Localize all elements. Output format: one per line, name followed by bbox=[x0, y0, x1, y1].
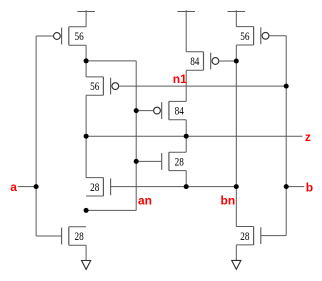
wire P3 source to P5 drain (net n1) bbox=[185, 70, 187, 101]
svg-text:an: an bbox=[138, 193, 152, 207]
wire gate P5 from net an bbox=[136, 110, 153, 112]
svg-text:56: 56 bbox=[90, 79, 99, 93]
nmos N2 w=28 (left middle, gate bn) bbox=[86, 178, 111, 196]
nmos N3 w=28 (bottom left, a-inverter pulldown) bbox=[62, 227, 87, 245]
wire N3 source to ground bbox=[85, 245, 87, 260]
wire net a vertical column bbox=[35, 36, 37, 236]
wire gate N4 from net b bbox=[261, 235, 286, 237]
wire gate P2 to net b bbox=[269, 35, 286, 37]
svg-text:56: 56 bbox=[240, 29, 249, 43]
wire P1 source to P4 drain (net an) bbox=[85, 45, 87, 77]
wire gate N3 from net a bbox=[36, 235, 62, 237]
svg-text:28: 28 bbox=[175, 155, 184, 169]
junction net z at middle column bbox=[184, 134, 189, 139]
pmos P5 w=84 (gate an) bbox=[154, 101, 187, 119]
svg-text:28: 28 bbox=[240, 229, 249, 243]
svg-text:28: 28 bbox=[90, 180, 99, 194]
wire net an vertical column bbox=[135, 61, 137, 211]
junction net an bottom bbox=[84, 208, 89, 213]
pmos P3 w=84 (top middle, gate bn) bbox=[186, 52, 219, 70]
svg-text:n1: n1 bbox=[173, 72, 187, 86]
svg-text:a: a bbox=[10, 180, 17, 194]
junction net an at gate P5 bbox=[134, 108, 139, 113]
power symbol VDD right bbox=[228, 10, 246, 26]
junction net b input bbox=[284, 184, 289, 189]
junction net an at P1 source bbox=[84, 58, 89, 63]
junction net bn row end bbox=[234, 184, 239, 189]
svg-text:b: b bbox=[306, 180, 313, 194]
wire N4 source to ground bbox=[235, 245, 237, 260]
wire N1 source down to net bn row bbox=[185, 171, 187, 187]
wire net b input stub bbox=[286, 186, 304, 188]
junction net z left end bbox=[84, 134, 89, 139]
pmos P4 w=56 (left, gate b) bbox=[86, 77, 119, 95]
svg-text:84: 84 bbox=[175, 104, 184, 118]
power symbol VDD middle bbox=[177, 10, 195, 52]
wire net a input stub bbox=[18, 186, 36, 188]
wire gate P3 to net bn bbox=[219, 60, 237, 62]
wire gate P4 / net b horizontal row bbox=[119, 85, 287, 87]
wire P5 source down to N1 drain (net z) bbox=[185, 120, 187, 152]
pmos P1 w=56 (a-inverter pullup) bbox=[54, 27, 87, 45]
wire net b vertical column bbox=[285, 36, 287, 236]
svg-text:bn: bn bbox=[221, 193, 236, 207]
wire net bn vertical column bbox=[235, 45, 237, 227]
svg-text:56: 56 bbox=[75, 29, 84, 43]
wire net an horizontal top bbox=[86, 60, 136, 62]
nmos N1 w=28 (middle, gate an) bbox=[162, 152, 187, 170]
svg-text:28: 28 bbox=[75, 229, 84, 243]
ground symbol left bbox=[82, 261, 91, 270]
power symbol VDD left bbox=[77, 10, 95, 27]
pmos P2 w=56 (right, b-inverter pullup) bbox=[236, 27, 269, 45]
wire gate P1 from net a bbox=[36, 35, 53, 37]
junction net bn at N1 source bbox=[184, 184, 189, 189]
ground symbol right bbox=[232, 260, 241, 269]
svg-text:z: z bbox=[305, 130, 311, 144]
wire P4 source down to N2 drain (net z left) bbox=[85, 95, 87, 177]
junction net an at gate N1 bbox=[134, 159, 139, 164]
junction net b at gate row bbox=[284, 84, 289, 89]
svg-text:84: 84 bbox=[190, 54, 199, 68]
nmos N4 w=28 (bottom right, b-inverter pulldown) bbox=[236, 227, 260, 245]
wire gate N1 from net an bbox=[136, 160, 162, 162]
junction net bn at gate P3 bbox=[234, 59, 239, 64]
junction net a input bbox=[34, 184, 39, 189]
wire net z horizontal row bbox=[86, 135, 302, 137]
wire gate N2 / net bn row bbox=[111, 186, 237, 188]
wire net an bottom horizontal bbox=[86, 209, 136, 211]
